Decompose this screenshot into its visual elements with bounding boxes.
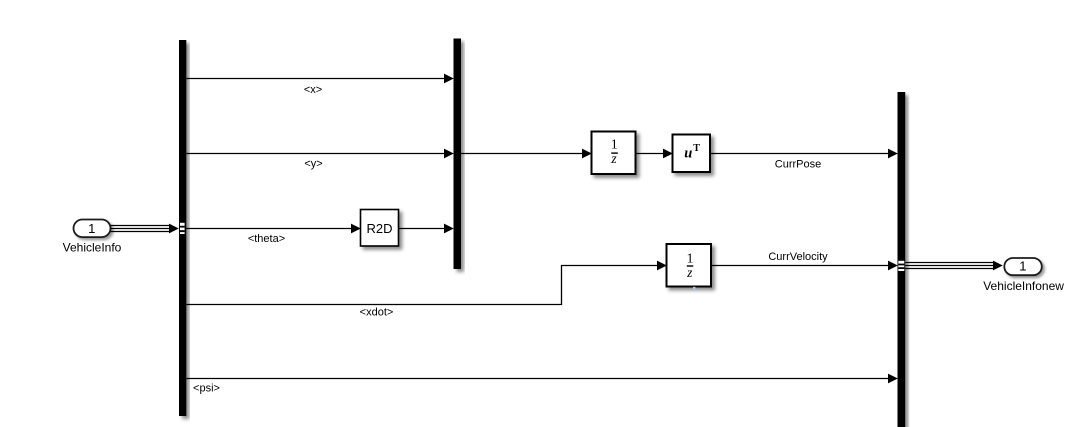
mux bar (middle) [454,39,462,270]
svg-text:CurrVelocity: CurrVelocity [768,251,828,263]
svg-text:VehicleInfonew: VehicleInfonew [983,279,1064,293]
svg-text:u: u [684,145,692,161]
svg-text:R2D: R2D [366,221,392,236]
svg-text:1: 1 [611,137,618,152]
wire <xdot> [186,261,667,305]
block unit delay U2 1/z [667,244,712,287]
bus selector bar (left) [179,40,186,416]
outport block 1 VehicleInfonew [1004,258,1042,275]
label VehicleInfonew [983,279,1064,293]
sample time dot [693,287,696,290]
wire <psi> [186,374,898,384]
block R2D [361,210,399,247]
label CurrPose [775,158,821,170]
bus creator output port icon [898,261,904,271]
wire unit delay U2 to bus creator, CurrVelocity [711,261,898,271]
bus selector input port icon [180,223,185,234]
svg-text:<psi>: <psi> [193,383,220,395]
svg-text:<x>: <x> [304,84,322,96]
svg-text:1: 1 [687,250,694,265]
label VehicleInfo [63,240,122,254]
svg-text:VehicleInfo: VehicleInfo [63,240,122,254]
label <theta> [248,233,285,245]
label <xdot> [360,306,394,318]
bus wire: inport to bus selector [111,224,179,234]
bus wire: bus creator to outport [905,261,1003,271]
wire mux to unit delay [461,149,592,159]
inport block 1 VehicleInfo [74,220,111,238]
svg-text:CurrPose: CurrPose [775,158,821,170]
svg-text:z: z [610,151,617,166]
wire R2D to mux [399,224,454,234]
label <psi> [193,383,220,395]
wire <theta> [186,224,360,234]
svg-text:<theta>: <theta> [248,233,285,245]
svg-text:T: T [693,143,700,154]
svg-text:<xdot>: <xdot> [360,306,394,318]
label CurrVelocity [768,251,828,263]
block transpose uT [673,135,711,173]
svg-text:1: 1 [1019,259,1026,274]
label <y> [304,158,322,170]
svg-text:<y>: <y> [304,158,322,170]
wire transpose to bus creator, CurrPose [710,149,898,159]
bus creator bar (right) [898,92,906,427]
svg-text:1: 1 [88,221,95,236]
wire <y> [186,149,454,159]
block unit delay U1 1/z [592,132,636,175]
wire <x> [186,74,454,84]
label <x> [304,84,322,96]
svg-text:z: z [686,265,693,280]
wire unit delay to transpose [636,149,673,159]
